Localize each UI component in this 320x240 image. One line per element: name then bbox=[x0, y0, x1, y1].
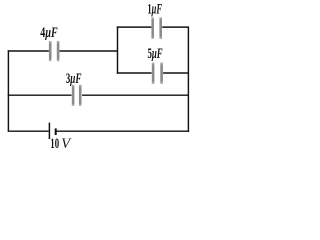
svg-text:4μF: 4μF bbox=[40, 25, 58, 41]
wire: right vertical branch bbox=[187, 26, 189, 131]
wire: main top wire right segment (4uF right plate to sub-loop) bbox=[60, 50, 118, 52]
wire: sub-loop bottom wire right segment (5uF right plate to corner) bbox=[163, 72, 188, 74]
wire: sub-loop top wire left segment (to 1uF left plate) bbox=[117, 26, 152, 28]
wire: sub-loop bottom wire left segment (to 5uF left plate) bbox=[117, 72, 152, 74]
capacitor C2 1uF plates bbox=[151, 17, 162, 39]
capacitor C4 3uF plates bbox=[72, 85, 82, 106]
wire: bottom wire right segment (battery short plate to right vertical) bbox=[56, 130, 189, 132]
wire: bottom wire left segment (to battery long plate) bbox=[8, 130, 49, 132]
svg-text:1μF: 1μF bbox=[147, 1, 162, 17]
wire: left vertical branch bbox=[7, 50, 9, 131]
battery V1 long plate bbox=[48, 123, 50, 139]
svg-text:V: V bbox=[61, 136, 72, 152]
capacitor C3 5uF plates bbox=[152, 63, 163, 85]
wire: sub-loop left vertical bbox=[117, 26, 119, 73]
wire: main top wire left segment (node to 4uF left plate) bbox=[8, 50, 49, 52]
svg-text:3μF: 3μF bbox=[66, 71, 82, 87]
svg-text:10: 10 bbox=[50, 136, 59, 152]
svg-text:5μF: 5μF bbox=[148, 46, 163, 62]
battery V1 short plate bbox=[55, 128, 57, 135]
capacitor C1 4uF plates bbox=[49, 41, 59, 61]
wire: middle wire left segment (to 3uF left plate) bbox=[8, 94, 72, 96]
wire: middle wire right segment (3uF right plate to right vertical) bbox=[82, 94, 188, 96]
wire: sub-loop top wire right segment (1uF right plate to corner) bbox=[162, 26, 188, 28]
